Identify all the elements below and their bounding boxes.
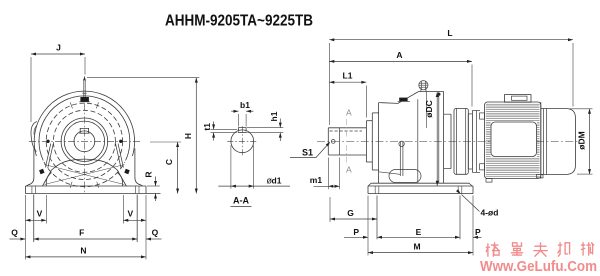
svg-text:P: P xyxy=(353,227,359,237)
svg-text:L: L xyxy=(447,28,452,38)
svg-text:A-A: A-A xyxy=(233,196,249,206)
svg-text:A: A xyxy=(396,50,402,60)
svg-text:d1: d1 xyxy=(272,175,282,185)
svg-text:4-ød: 4-ød xyxy=(481,207,499,217)
svg-text:t1: t1 xyxy=(202,123,212,131)
svg-text:J: J xyxy=(56,43,61,53)
svg-text:R: R xyxy=(144,171,154,177)
svg-text:V: V xyxy=(127,209,133,219)
svg-text:Www.GeLufu.Com: Www.GeLufu.Com xyxy=(480,259,597,275)
svg-text:L1: L1 xyxy=(343,71,353,81)
svg-text:A: A xyxy=(346,165,352,175)
svg-text:A: A xyxy=(346,108,352,118)
svg-text:N: N xyxy=(80,245,86,255)
svg-text:G: G xyxy=(347,208,354,218)
svg-text:E: E xyxy=(416,227,422,237)
svg-text:H: H xyxy=(183,133,193,139)
svg-text:F: F xyxy=(79,228,84,238)
svg-text:Q: Q xyxy=(11,228,18,238)
svg-text:m1: m1 xyxy=(310,175,323,185)
svg-text:P: P xyxy=(475,227,481,237)
svg-text:M: M xyxy=(413,241,420,251)
svg-text:V: V xyxy=(37,209,43,219)
svg-text:øDM: øDM xyxy=(576,131,586,149)
svg-text:C: C xyxy=(164,159,174,165)
svg-text:AHHM-9205TA~9225TB: AHHM-9205TA~9225TB xyxy=(165,12,313,29)
svg-text:b1: b1 xyxy=(240,100,250,110)
svg-text:S1: S1 xyxy=(302,147,313,157)
svg-text:Q: Q xyxy=(152,228,159,238)
svg-text:h1: h1 xyxy=(269,111,279,121)
svg-text:øDC: øDC xyxy=(424,100,434,117)
